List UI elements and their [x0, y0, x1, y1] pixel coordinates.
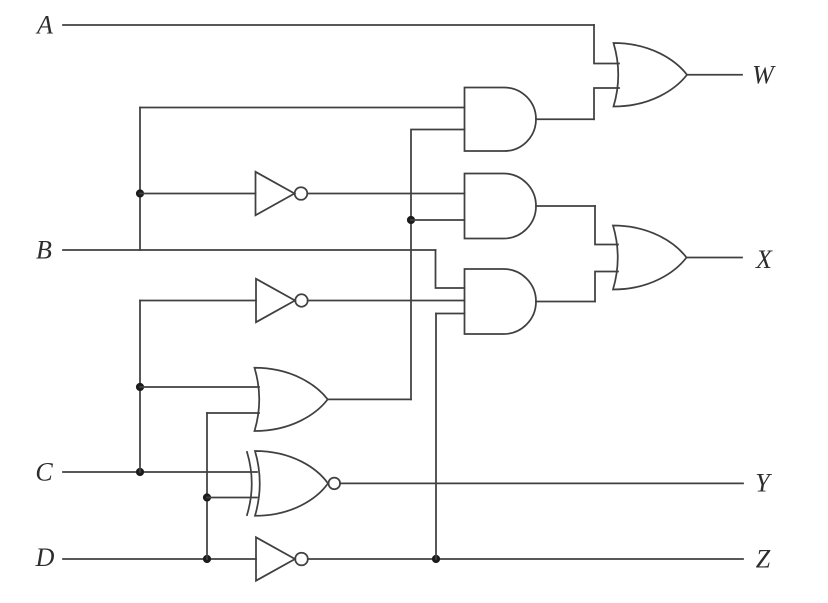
svg-text:Y: Y — [755, 469, 772, 498]
wire B elbow down into AND U3 top input — [436, 250, 465, 288]
wire to inverter U4 input — [140, 193, 256, 195]
svg-text:X: X — [755, 245, 773, 274]
junction node U7out tap — [407, 216, 415, 224]
svg-text:Z: Z — [756, 545, 771, 574]
junction node B-branch — [136, 189, 144, 197]
AND gate U2 — [465, 174, 537, 239]
AND gate U3 — [465, 269, 537, 334]
inverter U6 (NOT C) — [256, 279, 295, 322]
wire U2 output elbow down to OR U10 top input — [595, 206, 618, 245]
inverter U4 bubble — [295, 187, 308, 200]
junction node D-branch XNOR tap — [203, 493, 211, 501]
wire B branch to AND U1 top input — [140, 107, 465, 109]
inverter U9 bubble — [295, 553, 308, 566]
wire U7 output to AND U2 bottom input — [411, 219, 465, 221]
XNOR gate U8 body — [255, 451, 328, 516]
wire D horizontal into inverter U9 — [63, 558, 256, 560]
wire C horizontal into XNOR U8 top input — [63, 471, 257, 473]
svg-text:B: B — [36, 236, 52, 265]
svg-text:A: A — [35, 11, 53, 40]
wire U7 output — [328, 398, 411, 400]
wire U2 output — [536, 205, 595, 207]
svg-text:W: W — [752, 61, 776, 90]
XNOR gate U8 leading arc — [247, 452, 252, 515]
wire D branch to OR U7 bottom input — [207, 412, 259, 414]
OR gate U10 (output X) — [613, 226, 687, 290]
wire B horizontal — [63, 249, 436, 251]
wire U6 output to AND U3 middle input — [308, 300, 465, 302]
wire U9 output to Z — [308, 558, 743, 560]
wire D branch to XNOR U8 bottom input — [207, 497, 257, 499]
wire A horizontal — [63, 24, 594, 26]
wire U3 output — [536, 301, 595, 303]
svg-text:C: C — [35, 458, 53, 487]
wire Y output — [340, 482, 743, 484]
OR gate U5 (output W) — [614, 43, 688, 107]
junction node C-branch OR tap — [136, 383, 144, 391]
junction node NOTD — [432, 555, 440, 563]
OR gate U7 (C OR D) — [255, 368, 328, 431]
wire U7 output vertical up to AND U1 bottom input — [411, 130, 465, 400]
wire NOTD to AND U3 bottom input — [436, 313, 465, 315]
wire NOTD vertical up — [435, 314, 437, 560]
XNOR gate U8 bubble — [329, 478, 341, 490]
inverter U6 bubble — [295, 294, 307, 306]
svg-text:D: D — [35, 543, 55, 572]
inverter U9 (NOT D) — [256, 537, 295, 580]
wire B branch vertical at x140 up — [139, 108, 141, 251]
wire D branch vertical at x207 — [206, 413, 208, 559]
wire U4 output to AND U2 top input — [307, 193, 464, 195]
junction node C — [136, 468, 144, 476]
junction node D — [203, 555, 211, 563]
wire U3 output elbow up to OR U10 bottom input — [595, 272, 618, 302]
wire C branch vertical at x140 — [139, 301, 141, 473]
wire C branch to OR U7 top input — [140, 386, 259, 388]
wire W output — [687, 74, 742, 76]
inverter U4 (NOT B) — [256, 172, 295, 216]
wire U1 output — [536, 118, 594, 120]
wire A elbow down to OR U5 top input — [594, 25, 619, 64]
wire U1 output elbow up to OR U5 bottom input — [594, 88, 619, 119]
wire C branch to inverter U6 input — [140, 300, 256, 302]
AND gate U1 — [465, 88, 537, 152]
wire X output — [687, 257, 743, 259]
